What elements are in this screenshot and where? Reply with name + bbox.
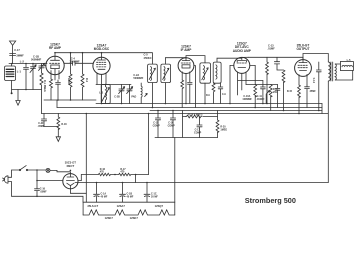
resistor R-1 xyxy=(40,73,46,114)
tube V3 12SK7 IF AMP xyxy=(178,44,194,103)
output transformer T-4 primary xyxy=(328,62,330,183)
filament string box xyxy=(83,202,175,220)
svg-text:COMP: COMP xyxy=(153,125,161,128)
heater feed wire xyxy=(37,180,63,182)
switch SW-1 xyxy=(12,166,46,178)
svg-text:L-1: L-1 xyxy=(17,70,22,74)
trimmer C-2B xyxy=(114,85,125,104)
volume control R-11 xyxy=(266,85,278,111)
screen lead wire xyxy=(194,66,196,108)
bus B4 xyxy=(42,113,329,115)
svg-text:L-5: L-5 xyxy=(347,58,351,62)
osc coil L-3 xyxy=(99,85,110,104)
svg-text:RECT: RECT xyxy=(67,164,75,168)
resistor R-20 xyxy=(216,111,227,138)
trimmer capacitor branch xyxy=(30,64,36,90)
AC plug P-1 xyxy=(3,176,12,183)
electrolytic C-1B2 xyxy=(120,183,134,203)
svg-text:R-9: R-9 xyxy=(206,95,210,97)
oscillator rail xyxy=(96,84,131,86)
tube V6 35Z3-GT RECT xyxy=(63,161,78,189)
cathode resistor R-7 xyxy=(181,80,184,108)
svg-text:MOD-OSC: MOD-OSC xyxy=(94,47,110,51)
coupling cap C-4 xyxy=(64,57,93,66)
svg-text:40 MF: 40 MF xyxy=(101,195,108,198)
cap C-2A label xyxy=(133,74,143,80)
cap C-9 xyxy=(218,83,223,103)
wire V5 plate to transformer xyxy=(303,54,328,63)
filter resistor R-17 xyxy=(115,168,149,176)
tube V5 35L6-GT OUTPUT xyxy=(295,44,312,85)
cap C-12 xyxy=(275,85,280,108)
slug coil L-4 xyxy=(141,83,147,104)
svg-text:C-17: C-17 xyxy=(14,48,20,52)
coupling cap C-13 xyxy=(242,43,303,64)
electrolytic C-1C xyxy=(144,183,158,203)
svg-text:40000: 40000 xyxy=(67,78,70,85)
tube V2 12SA7 MOD-OSC xyxy=(93,44,110,104)
dial lamp xyxy=(46,168,70,173)
resistor R-19 xyxy=(183,114,218,118)
cap C-14 xyxy=(312,62,321,111)
filter resistor R-16 xyxy=(81,168,115,176)
svg-text:C-14: C-14 xyxy=(312,78,315,84)
svg-text:R-15: R-15 xyxy=(287,90,293,93)
svg-text:PAD: PAD xyxy=(131,96,136,99)
svg-text:COMP: COMP xyxy=(194,132,202,135)
svg-text:20 MF: 20 MF xyxy=(151,195,158,198)
cap C-10A label xyxy=(242,95,265,101)
IF transformer T-1 primary can xyxy=(144,53,158,83)
node rail below V1 xyxy=(44,99,96,101)
grid resistor R-13 xyxy=(266,57,269,103)
electrolytic C-1A xyxy=(94,183,108,203)
svg-text:100MMF: 100MMF xyxy=(69,60,80,64)
bus B3 xyxy=(150,110,322,112)
svg-text:25MF: 25MF xyxy=(310,90,317,93)
transformer core xyxy=(331,62,333,81)
cap C-11 xyxy=(261,81,266,104)
output transformer T-4 secondary xyxy=(335,64,336,80)
ground xyxy=(16,90,20,106)
cathode resistor R-15 xyxy=(298,85,301,114)
line cap C-16A xyxy=(12,170,84,202)
svg-text:.002MF: .002MF xyxy=(256,98,265,101)
filter node drop xyxy=(135,175,137,183)
svg-text:12SK7: 12SK7 xyxy=(130,216,139,220)
resistor R-9 xyxy=(212,83,215,103)
resistor R-4 xyxy=(81,53,88,100)
B-minus return wire xyxy=(174,138,176,203)
ground bus left xyxy=(12,89,42,91)
wire V3 plate to T-2 xyxy=(186,56,205,63)
svg-text:OUTPUT: OUTPUT xyxy=(296,47,309,51)
svg-text:RF AMP: RF AMP xyxy=(49,46,62,50)
svg-text:AUDIO AMP: AUDIO AMP xyxy=(233,49,252,53)
tube V1 12SK7 RF AMP xyxy=(42,43,65,80)
B+ drop line xyxy=(85,114,87,194)
wire plate V1 to V2 xyxy=(55,52,102,54)
bypass cap C-5 xyxy=(56,80,61,100)
bottom bus xyxy=(75,182,328,184)
loop antenna L-1 xyxy=(5,64,22,95)
bus B2 xyxy=(57,107,322,109)
resistor R-18 xyxy=(57,114,67,137)
svg-text:35L6-GT: 35L6-GT xyxy=(87,204,98,208)
tuning capacitor C-1B xyxy=(31,55,45,73)
resistor R-14 xyxy=(277,64,285,111)
resistor R-10 xyxy=(250,65,257,107)
rectifier output wire xyxy=(78,175,81,181)
wire node L-2 top rail xyxy=(9,63,47,65)
wire T-1 to V3 grid xyxy=(165,58,186,64)
padder C-2C xyxy=(127,85,137,104)
cap C-17B xyxy=(194,117,202,138)
cap C-16B xyxy=(168,111,176,138)
svg-text:1MEG: 1MEG xyxy=(220,129,227,132)
AVC network caps C-15 xyxy=(153,111,161,138)
svg-text:12SA7: 12SA7 xyxy=(117,204,126,208)
ground xyxy=(56,137,60,142)
detector network rail xyxy=(238,81,278,85)
svg-text:L-3: L-3 xyxy=(99,91,103,95)
svg-text:12SK7: 12SK7 xyxy=(105,216,114,220)
svg-text:L-2: L-2 xyxy=(20,59,25,63)
svg-text:.01MF: .01MF xyxy=(267,47,275,51)
IF transformer T-2 secondary can xyxy=(213,62,221,83)
svg-text:Stromberg 500: Stromberg 500 xyxy=(245,196,296,205)
wire T-1 bottoms xyxy=(152,83,165,108)
B+ riser xyxy=(148,114,150,175)
speaker voice coil L-5 xyxy=(335,58,353,80)
rectifier cathode wire xyxy=(70,189,86,202)
svg-text:R-19 0.6MEG: R-19 0.6MEG xyxy=(188,114,203,117)
bypass cap C-8 xyxy=(188,80,193,104)
wire T-2 bottoms xyxy=(204,83,206,103)
svg-text:3MMF: 3MMF xyxy=(16,53,24,57)
IF transformer T-1 secondary can xyxy=(161,64,171,83)
antenna xyxy=(10,41,25,64)
capacitor C-18 branch xyxy=(24,64,29,90)
svg-text:40 MF: 40 MF xyxy=(127,195,134,198)
svg-text:IF AMP: IF AMP xyxy=(181,48,193,52)
svg-text:500MMF: 500MMF xyxy=(31,58,42,62)
resistor R-3 xyxy=(67,53,72,100)
svg-text:100MMF: 100MMF xyxy=(242,98,252,101)
svg-text:C-9: C-9 xyxy=(222,94,226,96)
svg-text:C-2B: C-2B xyxy=(114,96,120,99)
right feed line xyxy=(321,104,323,114)
stub xyxy=(56,100,58,108)
bus B1 xyxy=(96,103,322,105)
cathode resistor R-2 xyxy=(50,79,53,100)
svg-text:456KC: 456KC xyxy=(144,56,152,60)
svg-text:.05MF: .05MF xyxy=(40,190,47,193)
IF transformer T-2 primary can xyxy=(200,63,211,83)
bypass cap C-15A xyxy=(287,85,316,108)
svg-text:R-4: R-4 xyxy=(85,78,88,83)
tone network box xyxy=(155,111,218,138)
wire T-2 to V4 xyxy=(217,58,242,62)
svg-text:COMP: COMP xyxy=(168,125,176,128)
wire V2 plate to T-1 xyxy=(102,53,153,64)
tube V4 12SQ7 DET-AVC AUDIO AMP xyxy=(230,42,252,104)
svg-text:R-1 3MEG: R-1 3MEG xyxy=(43,80,46,92)
svg-text:12SQ7: 12SQ7 xyxy=(155,204,164,208)
svg-text:500MMF: 500MMF xyxy=(133,77,143,80)
cap C-20 xyxy=(38,114,59,128)
svg-text:R-18: R-18 xyxy=(61,123,67,126)
